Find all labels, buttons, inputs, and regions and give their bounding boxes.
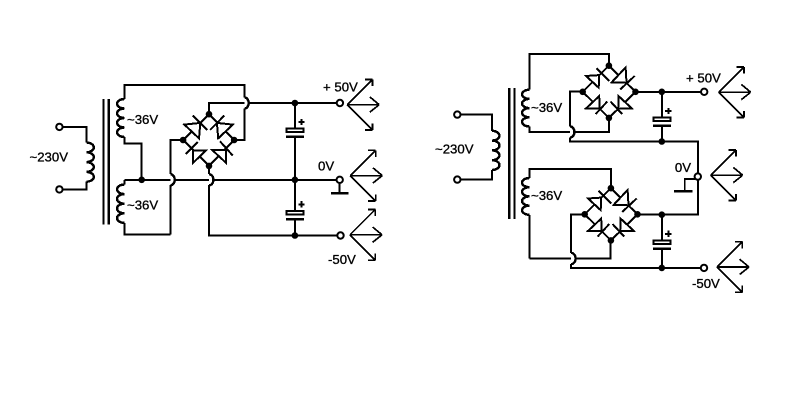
svg-text:+ 50V: + 50V — [686, 71, 721, 86]
svg-text:+ 50V: + 50V — [323, 80, 358, 95]
svg-text:0V: 0V — [675, 160, 691, 175]
svg-text:~36V: ~36V — [127, 198, 158, 213]
svg-text:~230V: ~230V — [435, 142, 474, 157]
svg-text:~36V: ~36V — [531, 188, 562, 203]
svg-text:~36V: ~36V — [127, 112, 158, 127]
svg-text:-50V: -50V — [692, 276, 720, 291]
svg-text:-50V: -50V — [328, 252, 356, 267]
svg-text:~36V: ~36V — [531, 100, 562, 115]
svg-text:~230V: ~230V — [30, 149, 69, 164]
svg-text:0V: 0V — [318, 159, 334, 174]
